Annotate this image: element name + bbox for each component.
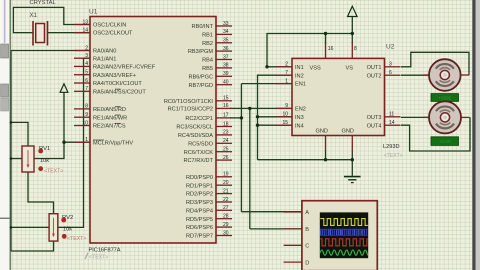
svg-text:U1: U1 (89, 9, 98, 16)
wire RV1 top lead (11, 122, 28, 146)
wire CCP1 pin17 (230, 117, 241, 119)
svg-text:24: 24 (223, 138, 229, 144)
oscilloscope channel A pin (284, 210, 310, 216)
svg-text:+0.00: +0.00 (439, 139, 451, 144)
wire crystal loop to OSC1 (13, 7, 90, 32)
svg-text:13: 13 (82, 19, 88, 25)
svg-text:10: 10 (282, 112, 288, 118)
svg-text:RD2/PSP2: RD2/PSP2 (186, 192, 213, 198)
svg-text:OUT3: OUT3 (367, 115, 382, 121)
svg-text:8: 8 (354, 46, 357, 52)
oscilloscope body (302, 201, 377, 270)
power symbol VDD left (MCLR pull-up) (60, 84, 68, 93)
junction (248, 107, 251, 110)
svg-text:EN2: EN2 (295, 107, 306, 113)
waveform channel B blue (320, 229, 368, 236)
motor M2 rpm display (431, 137, 459, 146)
svg-text:29: 29 (223, 222, 229, 228)
motor M1 (423, 59, 469, 91)
svg-text:14: 14 (389, 120, 395, 126)
waveform channel C red (320, 239, 368, 246)
svg-text:39: 39 (223, 71, 229, 77)
svg-text:10k: 10k (63, 227, 72, 233)
pin 21 RD2/PSP2 (186, 188, 232, 197)
svg-text:27: 27 (223, 205, 229, 211)
pin 6 OUT2 (367, 70, 401, 79)
svg-text:RB0/INT: RB0/INT (192, 24, 214, 30)
svg-text:RD3/PSP3: RD3/PSP3 (186, 200, 213, 206)
svg-text:15: 15 (282, 120, 288, 126)
svg-text:RE1/AN6/WR: RE1/AN6/WR (93, 115, 127, 121)
svg-text:14: 14 (82, 27, 88, 33)
svg-text:<TEXT>: <TEXT> (44, 169, 63, 175)
svg-text:RB4: RB4 (202, 58, 213, 64)
pin 30 RD7/PSP7 (186, 230, 232, 239)
svg-text:GND: GND (316, 129, 328, 135)
svg-text:EN1: EN1 (295, 82, 306, 88)
pin 40 RB7/PGD (188, 80, 232, 89)
wire to scope channel A (241, 211, 302, 213)
svg-text:37: 37 (223, 54, 229, 60)
pin 23 RC4/SDI/SDA (178, 130, 232, 139)
pin 15 IN4 (276, 120, 304, 129)
svg-text:11: 11 (389, 112, 394, 118)
svg-text:RB7/PGD: RB7/PGD (188, 83, 213, 89)
pin 24 RC5/SDO (188, 138, 232, 147)
pin 9 EN2 (276, 103, 306, 112)
wire to ground symbol (351, 160, 353, 176)
pin 4 RA2/AN2/VREF-/CVREF (74, 61, 156, 70)
svg-text:RC1/T1OSI/CCP2: RC1/T1OSI/CCP2 (168, 107, 213, 113)
oscilloscope channel C pin (284, 244, 310, 250)
svg-text:17: 17 (223, 113, 229, 119)
svg-text:L293D: L293D (383, 144, 399, 150)
svg-text:RB6/PGC: RB6/PGC (188, 74, 213, 80)
wire ground rail (258, 159, 353, 161)
IC U1 PIC16F877A body (90, 17, 216, 244)
svg-text:RD0/PSP0: RD0/PSP0 (186, 175, 213, 181)
wire CCP1 to EN1 (241, 83, 292, 85)
wire VDD to IN1 (267, 66, 292, 68)
oscilloscope channel B pin (284, 227, 310, 233)
RV1 adjust buttons (38, 149, 43, 172)
svg-text:RD6/PSP6: RD6/PSP6 (186, 225, 213, 231)
RV2 adjust buttons (61, 218, 66, 239)
pin 34 RB1 (202, 29, 232, 38)
wire rail to RV2 left (11, 226, 49, 228)
svg-text:RA0/AN0: RA0/AN0 (93, 49, 116, 55)
svg-text:2: 2 (285, 62, 288, 68)
svg-text:RD4/PSP4: RD4/PSP4 (186, 208, 213, 214)
wire VSS pin16 up (325, 34, 327, 45)
svg-text:GND: GND (342, 129, 354, 135)
potentiometer RV2 (49, 214, 58, 241)
svg-text:OUT1: OUT1 (367, 65, 382, 71)
svg-text:3: 3 (85, 53, 88, 59)
pin 1 EN1 (276, 78, 306, 87)
svg-text:D: D (305, 260, 309, 266)
svg-text:23: 23 (223, 130, 229, 136)
svg-text:RB5: RB5 (202, 66, 213, 72)
svg-text:30: 30 (223, 230, 229, 236)
svg-text:RA3/AN3/VREF+: RA3/AN3/VREF+ (93, 73, 136, 79)
wire RV2 bottom to rail (11, 241, 54, 251)
junction (265, 65, 268, 68)
pin 15 RC0/T1OSO/T1CKI (164, 96, 232, 105)
crystal X1 (33, 21, 48, 46)
svg-text:C: C (305, 244, 309, 250)
wire to IN3 (258, 116, 293, 118)
svg-text:16: 16 (223, 103, 229, 109)
svg-text:1: 1 (85, 137, 88, 143)
svg-text:20: 20 (223, 180, 229, 186)
pin 3 OUT1 (367, 62, 401, 71)
pin 7 IN2 (276, 70, 304, 79)
svg-text:RA4/T0CKI/C1OUT: RA4/T0CKI/C1OUT (93, 81, 142, 87)
junction (324, 158, 327, 161)
label TEXT placeholder U1 (85, 253, 109, 261)
junction (10, 121, 13, 124)
svg-text:15: 15 (223, 96, 229, 102)
svg-text:21: 21 (223, 188, 229, 194)
pin 10 RE2/AN7/CS (74, 120, 126, 129)
svg-text:<TEXT>: <TEXT> (67, 236, 86, 242)
svg-text:IN1: IN1 (295, 65, 304, 71)
svg-text:IN4: IN4 (295, 123, 304, 129)
wire OUT2 to motor M1 left (401, 74, 429, 76)
svg-text:OSC1/CLKIN: OSC1/CLKIN (93, 23, 126, 29)
pin 14 OUT4 (367, 120, 401, 129)
wire VDD rail to U2 (267, 34, 352, 67)
svg-text:10: 10 (82, 120, 88, 126)
svg-text:IN3: IN3 (295, 115, 304, 121)
wire RV2 wiper to RA1 pin3 (58, 58, 90, 227)
svg-text:RA1/AN1: RA1/AN1 (93, 56, 116, 62)
pin 5 RA3/AN3/VREF+ (74, 70, 136, 79)
pin 4 GND (316, 129, 328, 151)
svg-text:33: 33 (223, 21, 229, 27)
pin 26 RC7/RX/DT (183, 155, 232, 164)
svg-text:9: 9 (285, 103, 288, 109)
svg-text:VSS: VSS (310, 66, 321, 72)
pin 36 RB3/PGM (188, 46, 232, 55)
pin 13 GND (342, 129, 354, 151)
pin 25 RC6/TX/CK (184, 147, 232, 156)
svg-text:35: 35 (223, 38, 229, 44)
junction (256, 115, 259, 118)
pin 16 VSS (310, 42, 334, 72)
svg-text:28: 28 (223, 214, 229, 220)
junction (351, 32, 354, 35)
svg-text:25: 25 (223, 147, 229, 153)
svg-text:1: 1 (285, 78, 288, 84)
wire grounded chain IN2 (258, 75, 293, 160)
pin 22 RD3/PSP3 (186, 197, 232, 206)
wire RA0 pin2 (11, 50, 90, 52)
junction (10, 226, 13, 229)
wire rail to RV1 left (11, 158, 22, 160)
svg-text:26: 26 (223, 155, 229, 161)
waveform channel D green sine (320, 250, 370, 255)
wire to IN4 (258, 124, 293, 126)
waveform channel A yellow (320, 219, 368, 226)
pin 10 IN3 (276, 112, 304, 121)
wire RV1 bottom to RV2 top (28, 172, 54, 214)
oscilloscope channel D pin (284, 260, 310, 266)
svg-text:RC0/T1OSO/T1CKI: RC0/T1OSO/T1CKI (164, 99, 214, 105)
pin 1 MCLR/Vpp/THV (74, 137, 133, 146)
wire RV1 wiper to MCLR node (34, 142, 64, 158)
svg-text:RC3/SCK/SCL: RC3/SCK/SCL (176, 125, 213, 131)
svg-text:B: B (305, 227, 309, 233)
pin 39 RB6/PGC (188, 71, 232, 80)
svg-text:RD1/PSP1: RD1/PSP1 (186, 183, 213, 189)
wire CCP2 vertical to scope (249, 108, 251, 228)
svg-text:RB3/PGM: RB3/PGM (188, 49, 214, 55)
pin 37 RB4 (202, 54, 232, 63)
wire left rail vertical (10, 51, 12, 252)
junction (324, 32, 327, 35)
pin 17 RC2/CCP1 (185, 113, 232, 122)
svg-text:RC4/SDI/SDA: RC4/SDI/SDA (178, 133, 213, 139)
pin 27 RD4/PSP4 (186, 205, 232, 214)
pin 14 OSC2/CLKOUT (74, 27, 133, 36)
wire OUT3 to motor M2 left (401, 116, 429, 118)
wire OUT1 to motor M1 right terminal (401, 52, 469, 75)
svg-text:PIC16F877A: PIC16F877A (89, 248, 121, 254)
svg-text:OUT2: OUT2 (367, 73, 382, 79)
svg-text:RC7/RX/DT: RC7/RX/DT (183, 158, 213, 164)
svg-text:A: A (305, 210, 309, 216)
svg-text:16: 16 (328, 46, 334, 52)
oscilloscope screen (320, 212, 368, 258)
svg-text:40: 40 (223, 80, 229, 86)
pin 2 IN1 (276, 62, 304, 71)
svg-text:RD7/PSP7: RD7/PSP7 (186, 234, 213, 240)
svg-text:RC5/SDO: RC5/SDO (188, 141, 214, 147)
svg-text:5: 5 (85, 70, 88, 76)
pin 33 RB0/INT (192, 21, 232, 30)
junction (256, 124, 259, 127)
svg-text:9: 9 (85, 112, 88, 118)
wire VS pin8 up (351, 34, 353, 45)
wire power arrow stem (351, 17, 353, 34)
junction (351, 158, 354, 161)
svg-text:22: 22 (223, 197, 229, 203)
wire CCP1 vertical (240, 84, 242, 212)
svg-text:VS: VS (346, 66, 354, 72)
svg-text:RE0/AN5/RD: RE0/AN5/RD (93, 107, 126, 113)
junction (10, 157, 13, 160)
junction (240, 116, 243, 119)
svg-text:U2: U2 (386, 44, 395, 51)
svg-text:36: 36 (223, 46, 229, 52)
svg-text:8: 8 (85, 104, 88, 110)
wire GND pin down (325, 150, 327, 160)
ground symbol (344, 177, 361, 183)
svg-text:MCLR/Vpp/THV: MCLR/Vpp/THV (93, 140, 133, 146)
svg-text:X1: X1 (30, 13, 38, 19)
junction (62, 141, 65, 144)
svg-text:RC2/CCP1: RC2/CCP1 (185, 116, 213, 122)
svg-text:+2936: +2936 (438, 96, 451, 101)
wire GND pin down 2 (351, 150, 353, 160)
pin 13 OSC1/CLKIN (74, 19, 126, 28)
svg-text:7: 7 (85, 86, 88, 92)
svg-text:CRYSTAL: CRYSTAL (30, 0, 57, 6)
svg-text:<TEXT>: <TEXT> (89, 255, 108, 261)
IC U2 L293D body (292, 58, 385, 135)
svg-text:10k: 10k (40, 158, 49, 164)
pin 8 RE0/AN5/RD (74, 104, 126, 113)
svg-text:RA2/AN2/VREF-/CVREF: RA2/AN2/VREF-/CVREF (93, 65, 156, 71)
wire CCP2 pin16 to EN2 (230, 107, 292, 109)
svg-text:RE2/AN7/CS: RE2/AN7/CS (93, 124, 126, 130)
svg-text:RC6/TX/CK: RC6/TX/CK (184, 150, 213, 156)
pin 8 VS (346, 42, 358, 72)
svg-text:OUT4: OUT4 (367, 123, 382, 129)
pin 2 RA0/AN0 (74, 45, 116, 54)
svg-text:IN2: IN2 (295, 73, 304, 79)
pin 11 OUT3 (367, 112, 401, 121)
svg-text:19: 19 (223, 172, 229, 178)
svg-text:7: 7 (285, 70, 288, 76)
power symbol VDD right (U2 supply) (348, 6, 358, 16)
pin 20 RD1/PSP1 (186, 180, 232, 189)
motor M2 (423, 101, 470, 133)
pin 29 RD6/PSP6 (186, 222, 232, 231)
pin 6 RA4/T0CKI/C1OUT (74, 78, 142, 87)
pin 35 RB2 (202, 38, 232, 47)
svg-text:6: 6 (85, 78, 88, 84)
pin 3 RA1/AN1 (74, 53, 116, 62)
svg-text:18: 18 (223, 121, 229, 127)
pin 38 RB5 (202, 63, 232, 72)
pin 28 RD5/PSP5 (186, 214, 232, 223)
svg-text:2: 2 (85, 45, 88, 51)
pin 19 RD0/PSP0 (186, 172, 232, 181)
pin 18 RC3/SCK/SCL (176, 121, 232, 130)
svg-text:34: 34 (223, 29, 229, 35)
svg-text:RB1: RB1 (202, 33, 213, 39)
wire MCLR pin1 (64, 141, 90, 143)
pin 7 RA5/AN4/SS/C2OUT (74, 86, 146, 95)
pin 16 RC1/T1OSI/CCP2 (168, 103, 232, 112)
svg-text:38: 38 (223, 63, 229, 69)
wire crystal to OSC2 pin14 (48, 32, 91, 34)
wire to scope channel B (250, 228, 302, 230)
pin 9 RE1/AN6/WR (74, 112, 127, 121)
svg-text:3: 3 (389, 62, 392, 68)
potentiometer RV1 (22, 146, 34, 172)
wire OUT4 to motor M2 right terminal (401, 117, 470, 151)
wire VDD arrow to MCLR node (63, 92, 65, 142)
svg-text:RA5/AN4/SS/C2OUT: RA5/AN4/SS/C2OUT (93, 89, 146, 95)
svg-text:RD5/PSP5: RD5/PSP5 (186, 217, 213, 223)
motor M1 rpm display (431, 94, 459, 102)
svg-text:6: 6 (389, 70, 392, 76)
svg-text:4: 4 (85, 61, 88, 67)
svg-text:<TEXT>: <TEXT> (384, 153, 403, 159)
svg-text:RB2: RB2 (202, 41, 213, 47)
svg-text:OSC2/CLKOUT: OSC2/CLKOUT (93, 31, 133, 37)
